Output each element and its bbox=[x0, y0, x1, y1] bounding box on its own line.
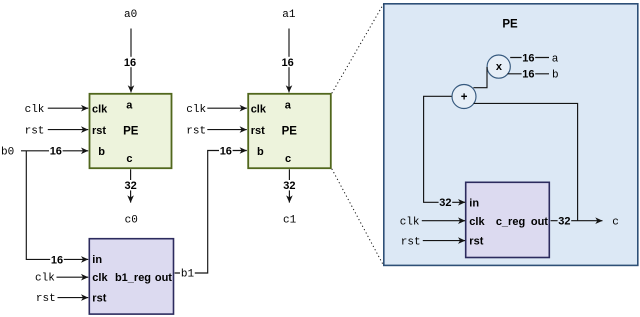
svg-text:16: 16 bbox=[220, 145, 232, 157]
svg-text:b: b bbox=[98, 146, 105, 158]
svg-text:32: 32 bbox=[558, 216, 570, 228]
svg-text:out: out bbox=[155, 272, 172, 284]
svg-text:clk: clk bbox=[251, 104, 267, 116]
svg-text:c1: c1 bbox=[283, 215, 297, 227]
PE2 pin rst bbox=[251, 125, 265, 137]
dotted zoom line bottom bbox=[332, 169, 384, 265]
PE1 pin rst bbox=[92, 125, 106, 137]
svg-text:rst: rst bbox=[401, 236, 421, 248]
PE1 pin c bbox=[126, 153, 132, 165]
wire c_reg.out to c bbox=[551, 216, 603, 228]
svg-text:c: c bbox=[126, 153, 132, 165]
node clk (panel) bbox=[400, 217, 420, 229]
svg-text:a1: a1 bbox=[282, 9, 296, 21]
adder circle U-add bbox=[452, 85, 476, 109]
node c0 bbox=[125, 215, 138, 227]
block c_reg bbox=[466, 182, 550, 257]
svg-text:32: 32 bbox=[283, 180, 295, 192]
node rst (PE1) bbox=[25, 125, 45, 137]
svg-text:a: a bbox=[285, 100, 292, 112]
PE1 name label bbox=[123, 126, 139, 138]
node clk (b1_reg) bbox=[35, 273, 55, 285]
multiplier circle U-mult bbox=[487, 55, 510, 78]
svg-text:clk: clk bbox=[92, 272, 108, 284]
svg-text:b: b bbox=[257, 146, 264, 158]
wire c1 out of PE2 bbox=[283, 169, 297, 202]
wire clk to c_reg bbox=[422, 220, 465, 222]
svg-text:32: 32 bbox=[125, 180, 137, 192]
PE2 pin b bbox=[257, 146, 264, 158]
PE1 pin b bbox=[98, 146, 105, 158]
svg-text:16: 16 bbox=[282, 57, 294, 69]
node a0 bbox=[124, 9, 137, 21]
svg-text:a: a bbox=[552, 53, 559, 65]
svg-text:a: a bbox=[126, 100, 133, 112]
svg-text:b1_reg: b1_reg bbox=[115, 272, 151, 284]
c_reg pin rst bbox=[469, 236, 483, 248]
svg-text:in: in bbox=[469, 197, 479, 209]
wire b0 branch to b1_reg.in bbox=[26, 151, 88, 266]
svg-text:rst: rst bbox=[92, 293, 106, 305]
wire c0 out of PE1 bbox=[124, 169, 138, 202]
svg-text:16: 16 bbox=[124, 57, 136, 69]
PE1 pin clk bbox=[92, 104, 108, 116]
svg-text:rst: rst bbox=[36, 293, 56, 305]
svg-text:clk: clk bbox=[35, 273, 55, 285]
dotted zoom line top bbox=[332, 4, 384, 93]
node a (panel) bbox=[552, 53, 559, 65]
node b0 bbox=[1, 147, 14, 159]
svg-text:rst: rst bbox=[92, 125, 106, 137]
block PE1 bbox=[90, 94, 172, 168]
svg-text:clk: clk bbox=[400, 217, 420, 229]
zoom panel PE detail background bbox=[384, 4, 638, 266]
svg-text:c: c bbox=[285, 153, 291, 165]
wire mult to b bbox=[508, 69, 549, 81]
svg-text:b1: b1 bbox=[181, 269, 195, 281]
svg-text:c0: c0 bbox=[125, 215, 138, 227]
panel title PE bbox=[502, 18, 518, 30]
node clk (PE1) bbox=[25, 104, 45, 116]
svg-text:PE: PE bbox=[282, 126, 298, 138]
svg-text:16: 16 bbox=[522, 69, 534, 81]
node b (panel) bbox=[552, 70, 559, 82]
PE2 pin clk bbox=[251, 104, 267, 116]
svg-text:in: in bbox=[92, 254, 102, 266]
svg-text:rst: rst bbox=[186, 125, 206, 137]
svg-text:PE: PE bbox=[123, 126, 139, 138]
svg-text:16: 16 bbox=[50, 146, 62, 158]
svg-text:x: x bbox=[496, 61, 503, 73]
wire mult to adder bbox=[473, 67, 487, 88]
wire rst to PE1 bbox=[48, 129, 88, 131]
wire clk to PE2 bbox=[207, 107, 247, 109]
node c1 bbox=[283, 215, 297, 227]
svg-text:clk: clk bbox=[186, 104, 206, 116]
node rst (PE2) bbox=[186, 125, 206, 137]
block b1_reg bbox=[89, 239, 173, 314]
b1_reg pin in bbox=[92, 254, 102, 266]
svg-text:c: c bbox=[612, 217, 619, 229]
c_reg pin out bbox=[531, 216, 548, 228]
svg-text:rst: rst bbox=[469, 236, 483, 248]
b1_reg pin clk bbox=[92, 272, 108, 284]
svg-text:PE: PE bbox=[502, 18, 518, 30]
PE2 pin a bbox=[285, 100, 292, 112]
wire b1_reg.out to PE2.b bbox=[175, 145, 247, 273]
node rst (b1_reg) bbox=[36, 293, 56, 305]
wire adder to c_reg.in bbox=[424, 96, 466, 209]
wire a0 to PE1.a bbox=[123, 29, 137, 93]
wire rst to PE2 bbox=[207, 129, 247, 131]
node clk (PE2) bbox=[186, 104, 206, 116]
node c (panel) bbox=[612, 217, 619, 229]
svg-text:+: + bbox=[461, 91, 468, 103]
b1_reg pin out bbox=[155, 272, 172, 284]
svg-text:clk: clk bbox=[92, 104, 108, 116]
c_reg name label bbox=[496, 216, 525, 228]
svg-text:b0: b0 bbox=[1, 147, 14, 159]
svg-text:16: 16 bbox=[51, 254, 63, 266]
wire b0 to PE1.b bbox=[21, 146, 88, 158]
PE2 name label bbox=[282, 126, 298, 138]
svg-text:clk: clk bbox=[25, 104, 45, 116]
svg-text:out: out bbox=[531, 216, 548, 228]
node rst (panel) bbox=[401, 236, 421, 248]
node b1 bbox=[180, 268, 195, 281]
svg-text:16: 16 bbox=[522, 52, 534, 64]
wire mult to a bbox=[510, 52, 549, 64]
b1_reg pin rst bbox=[92, 293, 106, 305]
svg-text:32: 32 bbox=[439, 197, 451, 209]
c_reg pin in bbox=[469, 197, 479, 209]
svg-text:c_reg: c_reg bbox=[496, 216, 525, 228]
wire rst to b1_reg bbox=[58, 297, 89, 299]
svg-text:b: b bbox=[552, 70, 559, 82]
svg-text:clk: clk bbox=[469, 216, 485, 228]
wire clk to PE1 bbox=[48, 107, 88, 109]
PE1 pin a bbox=[126, 100, 133, 112]
svg-text:rst: rst bbox=[25, 125, 45, 137]
c_reg pin clk bbox=[469, 216, 485, 228]
wire a1 to PE2.a bbox=[281, 29, 295, 93]
wire clk to b1_reg bbox=[57, 276, 89, 278]
wire rst to c_reg bbox=[423, 240, 465, 242]
svg-text:a0: a0 bbox=[124, 9, 137, 21]
block PE2 bbox=[248, 94, 331, 168]
svg-text:rst: rst bbox=[251, 125, 265, 137]
node a1 bbox=[282, 9, 296, 21]
wire feedback out to adder bbox=[474, 103, 578, 220]
b1_reg name label bbox=[115, 272, 151, 284]
PE2 pin c bbox=[285, 153, 291, 165]
